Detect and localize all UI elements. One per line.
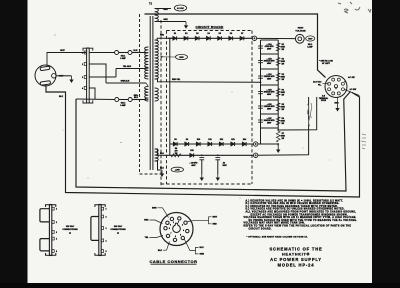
svg-text:D10: D10 xyxy=(197,139,200,141)
wire LV row xyxy=(163,154,254,156)
resistor R6 xyxy=(276,117,280,125)
svg-text:VOLTAGE: VOLTAGE xyxy=(295,29,306,32)
svg-text:MODEL HP-24: MODEL HP-24 xyxy=(278,263,315,268)
T1 core xyxy=(149,16,151,170)
svg-text:CIRCUIT BOARD: CIRCUIT BOARD xyxy=(196,25,225,29)
diode D4 xyxy=(206,36,210,40)
capacitor C1A xyxy=(258,46,263,48)
svg-text:D.) VOLTAGES ARE POSITIVE DC: D.) VOLTAGES ARE POSITIVE DC UNLESS MARK… xyxy=(246,208,345,211)
T1 dashed outline xyxy=(140,14,162,174)
svg-text:7: 7 xyxy=(170,233,171,235)
svg-text:3: 3 xyxy=(56,232,57,234)
fuse F1 xyxy=(115,51,119,55)
svg-text:WHT: WHT xyxy=(213,216,218,218)
T1 primary winding 2 xyxy=(145,86,149,101)
svg-text:3 AMP: 3 AMP xyxy=(120,57,126,60)
svg-text:BLU: BLU xyxy=(200,247,205,249)
svg-text:5: 5 xyxy=(56,251,57,253)
HV terminal E1 xyxy=(295,34,304,43)
connector pins xyxy=(170,217,173,220)
capacitor C1D xyxy=(258,92,263,94)
svg-text:1W: 1W xyxy=(281,138,284,140)
svg-text:3: 3 xyxy=(82,77,83,79)
svg-text:2W: 2W xyxy=(281,64,284,66)
ground under T1 xyxy=(160,170,164,177)
diode D15 xyxy=(190,153,194,157)
svg-text:350V: 350V xyxy=(179,57,184,59)
svg-text:2: 2 xyxy=(178,222,179,224)
ground symbol at plug xyxy=(69,76,73,83)
resistor R2 xyxy=(276,58,280,66)
wire F1 to T1 primary xyxy=(132,52,146,54)
diode D5 xyxy=(218,36,222,40)
capacitor C2 xyxy=(199,158,204,160)
svg-text:C.) INDICATES DC VOLTAGE READ: C.) INDICATES DC VOLTAGE READINGS TAKEN … xyxy=(246,205,339,208)
svg-text:BRN: BRN xyxy=(152,207,157,209)
plug hot blade xyxy=(40,81,51,86)
TS-A bottom lug xyxy=(46,253,56,255)
bank bar 2 xyxy=(261,68,279,70)
svg-text:GRN: GRN xyxy=(163,19,168,21)
capacitor C1C xyxy=(258,76,263,78)
svg-text:6: 6 xyxy=(175,236,176,238)
svg-text:A.) RESISTOR VALUES ARE IN OH: A.) RESISTOR VALUES ARE IN OHMS (K = 100… xyxy=(246,199,344,202)
svg-text:-130V: -130V xyxy=(175,169,181,171)
svg-text:EXCEPT AC VOLTAGES ON POWER TR: EXCEPT AC VOLTAGES ON POWER TRANSFORMER … xyxy=(251,213,348,216)
wire bank left rail bottom xyxy=(258,143,278,145)
svg-text:5: 5 xyxy=(180,235,181,237)
diode D11 xyxy=(208,142,212,146)
wire socket fil xyxy=(323,82,329,84)
stub P2 xyxy=(146,83,148,86)
wire bottom inner (switch return loop) xyxy=(76,92,351,192)
TS-B terminal 1 xyxy=(101,207,103,210)
T1 LV secondary winding xyxy=(155,149,159,161)
diode D2 xyxy=(184,36,188,40)
plug neutral blade xyxy=(40,66,50,71)
wire junction to cap bank xyxy=(255,39,261,42)
TS-A terminal 5 xyxy=(52,250,54,253)
svg-text:D11: D11 xyxy=(208,139,211,141)
T1 HV secondary winding xyxy=(155,40,159,79)
svg-text:VOLTAGE READINGS TAKEN WITH AN: VOLTAGE READINGS TAKEN WITH AN 11 MEGOHM… xyxy=(244,216,357,219)
svg-text:FIL.: FIL. xyxy=(318,84,322,86)
svg-text:D1: D1 xyxy=(174,33,176,35)
wire filament bottom xyxy=(155,21,186,23)
fuse F2 xyxy=(115,98,119,102)
board dashed right xyxy=(251,31,253,185)
wire rectifier row 2 xyxy=(170,143,254,145)
svg-text:2W: 2W xyxy=(175,153,178,155)
wire TS1-1 to fuse F1 xyxy=(89,52,115,54)
svg-text:RED-YEL: RED-YEL xyxy=(172,79,181,81)
diode D6 xyxy=(229,36,233,40)
svg-text:1: 1 xyxy=(106,209,107,211)
TS-B terminal 2 xyxy=(101,215,103,218)
wire plug neutral to strip xyxy=(47,53,86,67)
wire F2 to T1 primary xyxy=(132,99,146,101)
bank bar 1 xyxy=(261,53,279,55)
svg-text:AT LEFT: AT LEFT xyxy=(322,62,331,65)
pencil marks far right xyxy=(361,134,366,149)
svg-text:HEATHKIT®: HEATHKIT® xyxy=(282,253,310,257)
svg-text:240 VAC: 240 VAC xyxy=(114,225,123,228)
svg-text:D4: D4 xyxy=(207,32,209,35)
voltage oval at HV xyxy=(306,36,315,41)
svg-text:CONNECTIONS: CONNECTIONS xyxy=(110,229,126,231)
diode D13 xyxy=(231,142,235,146)
svg-text:D12: D12 xyxy=(220,139,223,141)
svg-text:1: 1 xyxy=(56,209,57,211)
voltage oval 6.3VAC xyxy=(174,5,186,11)
TS1 terminal 2 xyxy=(84,63,87,66)
diode D8 xyxy=(173,142,177,146)
AC plug P1 body xyxy=(35,65,56,86)
svg-text:D13: D13 xyxy=(231,139,234,141)
ground at filament xyxy=(184,22,188,29)
terminal strip TS1 bar xyxy=(87,48,90,103)
svg-text:GRN-BLK: GRN-BLK xyxy=(121,81,130,83)
svg-text:HIGH: HIGH xyxy=(298,28,304,30)
svg-text:WHT: WHT xyxy=(60,50,65,52)
TS-A terminal 1 xyxy=(52,207,54,210)
svg-text:2: 2 xyxy=(82,64,83,66)
socket center key xyxy=(334,85,337,88)
wire bottom outer (black lead loop) xyxy=(46,85,360,198)
wire RED-YEL xyxy=(155,79,261,82)
svg-text:2W: 2W xyxy=(281,123,284,125)
wire to HV terminal xyxy=(257,37,295,39)
T1 filament winding top xyxy=(155,9,159,22)
svg-text:BLK: BLK xyxy=(134,50,139,52)
svg-text:3 AMP: 3 AMP xyxy=(120,104,126,107)
capacitor C1F xyxy=(258,120,263,122)
svg-text:AC SW: AC SW xyxy=(350,88,357,91)
board dashed top xyxy=(167,30,253,32)
TS-B bar xyxy=(99,205,101,256)
wire C3 ground xyxy=(217,160,219,174)
svg-text:D3: D3 xyxy=(196,33,198,35)
svg-text:GND: GND xyxy=(334,103,339,105)
TS-A jumper 3-4 xyxy=(40,239,50,251)
TS-B jumper 2-3 xyxy=(91,217,99,241)
top border wire xyxy=(145,14,326,78)
junction dot DC out xyxy=(277,129,279,131)
ground under C3 xyxy=(216,174,220,181)
pencil marks top right xyxy=(338,2,371,13)
diode D10 xyxy=(196,142,200,146)
svg-text:8: 8 xyxy=(169,228,170,230)
svg-text:RED: RED xyxy=(213,223,218,225)
wire TS1-3 xyxy=(89,76,116,78)
svg-text:REFER TO THE X-RAY VIEW FOR TH: REFER TO THE X-RAY VIEW FOR THE PHYSICAL… xyxy=(244,225,352,228)
TS-A terminal 2 xyxy=(52,221,54,224)
voltage oval HV winding xyxy=(176,54,188,59)
svg-text:700V: 700V xyxy=(308,38,313,40)
diode D9 xyxy=(185,142,189,146)
TS-B top lug xyxy=(95,205,105,207)
bank bar 0 xyxy=(261,39,279,41)
svg-text:4: 4 xyxy=(82,87,83,90)
TS1 bottom mounting lug xyxy=(83,100,93,103)
svg-text:* SEE R1 & R8: * SEE R1 & R8 xyxy=(319,61,333,63)
svg-text:2W: 2W xyxy=(281,79,284,81)
svg-text:D7: D7 xyxy=(241,33,243,35)
svg-text:D15: D15 xyxy=(190,150,193,152)
svg-text:D9: D9 xyxy=(186,139,188,141)
svg-text:RED: RED xyxy=(144,220,149,222)
wire row2 feed xyxy=(169,38,171,155)
svg-text:AC SW: AC SW xyxy=(348,76,355,79)
capacitor C1E xyxy=(258,106,263,108)
TS-B terminal 5 xyxy=(101,250,103,253)
wire YEL-BLK xyxy=(116,68,146,70)
wire rectifier row 1 xyxy=(168,37,252,39)
cable connector body xyxy=(160,213,193,246)
TS1 terminal 3 xyxy=(84,76,87,79)
ground under C2 xyxy=(200,174,204,181)
junction dot RED-YEL xyxy=(260,81,262,83)
TS-A terminal 3 xyxy=(52,231,54,234)
junction terminal row1 xyxy=(252,36,256,40)
svg-text:D2: D2 xyxy=(185,33,187,35)
svg-text:BLK: BLK xyxy=(59,96,64,98)
svg-text:SCHEMATIC OF THE: SCHEMATIC OF THE xyxy=(270,246,323,251)
wire pin to AC SW xyxy=(344,81,346,83)
svg-text:CIRCUIT BOARD.: CIRCUIT BOARD. xyxy=(249,227,272,230)
svg-text:CABLE CONNECTOR: CABLE CONNECTOR xyxy=(149,259,197,264)
ground under socket xyxy=(335,105,339,112)
wire riser xyxy=(115,69,117,78)
socket pins xyxy=(332,78,335,81)
wire socket gnd xyxy=(337,98,339,105)
svg-text:2: 2 xyxy=(106,217,107,219)
board dashed left inner xyxy=(166,31,168,185)
svg-text:DC PROBE SHOULD BE USED WITH T: DC PROBE SHOULD BE USED WITH THE VTVM TO… xyxy=(249,219,358,222)
capacitor C1B xyxy=(258,61,263,63)
cap bank right rail xyxy=(277,40,279,130)
wire LV out to socket xyxy=(258,97,309,155)
wire secondary top to rectifier row xyxy=(155,38,172,40)
resistor R3 xyxy=(276,73,280,81)
svg-text:3: 3 xyxy=(182,225,183,227)
TS-A terminal 4 xyxy=(52,237,54,240)
svg-text:4: 4 xyxy=(56,238,57,241)
bank bar 3 xyxy=(261,84,279,86)
svg-text:4: 4 xyxy=(106,239,107,242)
resistor R4 xyxy=(276,89,280,97)
svg-text:YEL-BLK: YEL-BLK xyxy=(123,66,132,68)
TS-B bottom lug xyxy=(95,253,105,255)
diode D7 xyxy=(240,36,244,40)
svg-text:GRN: GRN xyxy=(163,9,168,11)
TS1 terminal 1 xyxy=(84,51,87,54)
svg-text:VOLTAGES MAY VARY NOT MORE THA: VOLTAGES MAY VARY NOT MORE THAN 10%. xyxy=(244,222,306,225)
diode D1 xyxy=(173,36,177,40)
wire GRN-BLK xyxy=(106,82,146,84)
wire LV top xyxy=(155,149,163,155)
svg-text:D8: D8 xyxy=(174,139,176,141)
stub P1 xyxy=(146,52,148,54)
wire C2 ground xyxy=(201,160,203,174)
diode D14 xyxy=(242,142,246,146)
bank bottom bar xyxy=(261,127,279,129)
svg-text:12.6 VAC: 12.6 VAC xyxy=(313,81,322,84)
diode D3 xyxy=(195,36,199,40)
TS-B terminal 4 xyxy=(101,239,103,242)
junction dot C3 xyxy=(217,154,219,156)
wire TS1-4 drop xyxy=(89,88,95,99)
board dashed bottom xyxy=(161,183,252,185)
bank bar 5 xyxy=(261,113,279,115)
TS-A bar xyxy=(49,205,51,256)
svg-text:* OPTIONAL: SEE RIGHT HAND COL: * OPTIONAL: SEE RIGHT HAND COLUMN ON PAG… xyxy=(247,236,309,239)
svg-text:2: 2 xyxy=(56,222,57,224)
svg-text:BLK: BLK xyxy=(158,250,163,252)
resistor R5 xyxy=(276,103,280,111)
wire LV bottom to ground xyxy=(155,161,162,170)
svg-text:3: 3 xyxy=(106,228,107,230)
svg-text:9: 9 xyxy=(170,225,171,227)
capacitor C3 xyxy=(215,158,220,160)
svg-text:BLU: BLU xyxy=(160,153,165,155)
svg-text:2W: 2W xyxy=(281,109,284,111)
wire to fuse F2 xyxy=(76,98,115,101)
TS-A jumper 1-2 xyxy=(40,209,50,222)
diode D12 xyxy=(219,142,223,146)
svg-text:1: 1 xyxy=(173,222,174,224)
wire DC out xyxy=(278,97,317,130)
terminal row2 B+ xyxy=(254,142,258,146)
svg-text:ALL VOLTAGES ARE MEASURED FROM: ALL VOLTAGES ARE MEASURED FROM POINT IND… xyxy=(246,211,357,214)
cap bank left rail xyxy=(260,40,262,144)
T1 secondary winding 2 xyxy=(155,88,159,101)
socket SO1 body xyxy=(325,76,347,98)
wire oval pointer xyxy=(161,56,176,58)
wire bank ground stub xyxy=(277,144,279,146)
plug ground pin xyxy=(52,74,56,78)
bank bar 4 xyxy=(261,99,279,101)
svg-text:CONNECTIONS: CONNECTIONS xyxy=(62,229,78,231)
wire filament top xyxy=(155,8,171,10)
svg-text:LAMP: LAMP xyxy=(307,45,313,48)
pencil scribble right margin xyxy=(307,103,311,126)
TS1 terminal 4 xyxy=(84,87,87,90)
svg-text:D14: D14 xyxy=(243,138,246,141)
board dashed left outer xyxy=(160,20,162,186)
resistor R8 xyxy=(171,154,181,157)
svg-text:6.3 VAC: 6.3 VAC xyxy=(177,7,185,10)
svg-text:B.) CAPACITOR VALUES ARE IN M: B.) CAPACITOR VALUES ARE IN MFD UNLESS M… xyxy=(246,202,340,205)
svg-text:BLK: BLK xyxy=(134,97,139,99)
paper specks xyxy=(55,35,331,199)
TS1 top mounting lug xyxy=(83,48,93,51)
svg-text:D6: D6 xyxy=(230,33,232,35)
svg-text:HOLE: HOLE xyxy=(321,100,327,102)
connector keyway xyxy=(173,223,181,232)
svg-text:AC POWER SUPPLY: AC POWER SUPPLY xyxy=(270,257,322,262)
wire plug ground xyxy=(56,75,72,77)
svg-text:GRN: GRN xyxy=(200,254,205,256)
voltage oval bias xyxy=(171,167,183,172)
svg-text:D5: D5 xyxy=(219,33,221,35)
svg-text:2W: 2W xyxy=(281,49,284,51)
wire TS1-2 step xyxy=(89,64,106,83)
TS-B terminal 3 xyxy=(101,227,103,230)
T1 primary winding 1 xyxy=(145,47,149,79)
svg-text:5: 5 xyxy=(106,251,107,253)
svg-text:2W: 2W xyxy=(281,95,284,97)
junction dot C2 xyxy=(201,154,203,156)
resistor R7 bleeder xyxy=(276,131,280,142)
junction dot bank bottom xyxy=(277,143,279,145)
svg-text:1: 1 xyxy=(82,53,83,55)
ground under bank xyxy=(276,146,280,153)
svg-text:120 VAC: 120 VAC xyxy=(66,225,75,228)
TS-A top lug xyxy=(46,205,56,207)
terminal LV out xyxy=(254,153,258,157)
resistor R1 xyxy=(276,43,280,51)
